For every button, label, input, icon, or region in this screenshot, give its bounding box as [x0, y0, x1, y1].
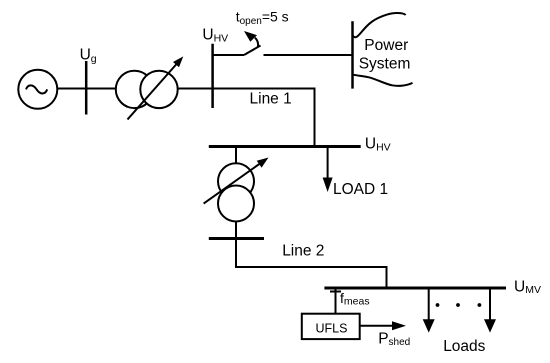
svg-text:Pshed: Pshed [378, 331, 410, 348]
svg-text:Ug: Ug [80, 47, 97, 65]
svg-text:UHV: UHV [202, 27, 228, 45]
svg-text:UFLS: UFLS [316, 321, 348, 335]
svg-text:System: System [359, 55, 411, 72]
svg-text:Power: Power [364, 37, 408, 54]
svg-text:Line 1: Line 1 [250, 90, 292, 107]
svg-text:Loads: Loads [443, 338, 485, 355]
svg-text:topen=5 s: topen=5 s [236, 8, 289, 27]
svg-text:LOAD 1: LOAD 1 [333, 181, 388, 198]
svg-text:UHV: UHV [365, 136, 391, 154]
svg-text:UMV: UMV [514, 278, 541, 296]
svg-text:fmeas: fmeas [340, 290, 370, 308]
svg-text:Line 2: Line 2 [282, 243, 324, 260]
